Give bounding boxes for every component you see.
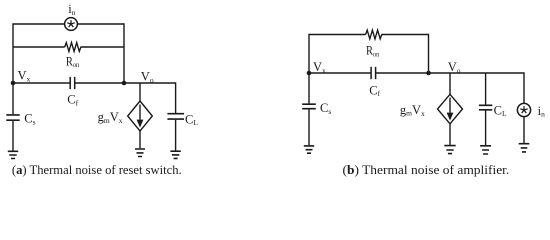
wire gmVx top (b) <box>449 73 451 94</box>
label Cs (a) <box>24 112 35 127</box>
caption (b) <box>343 162 510 177</box>
wire right vertical (b) <box>428 34 430 73</box>
capacitor Cs (b) <box>302 104 316 109</box>
wire CL top (b) <box>485 73 487 105</box>
label Ron (b) <box>366 44 380 59</box>
wire Cs bottom (b) <box>308 109 310 145</box>
label Vo (a) <box>141 70 154 85</box>
label CL (b) <box>494 103 507 118</box>
wire gmVx bottom (a) <box>139 131 141 148</box>
wire CL bottom (b) <box>485 111 487 146</box>
wire Cs top (a) <box>12 83 14 114</box>
svg-text:Vo: Vo <box>448 60 461 75</box>
capacitor Cf (a) <box>70 77 75 89</box>
wire in branch bottom (b) <box>523 117 525 143</box>
capacitor CL (b) <box>479 105 492 110</box>
wire top rail left (b) <box>309 34 366 36</box>
wire second rail right (a) <box>81 46 125 48</box>
svg-text:Cf: Cf <box>67 93 78 108</box>
svg-text:(a) Thermal noise of reset swi: (a) Thermal noise of reset switch. <box>12 162 182 177</box>
dependent source gmVx (b) <box>438 94 463 124</box>
svg-text:gmVx: gmVx <box>400 103 425 118</box>
label in (a) <box>68 2 75 17</box>
wire left vertical (a) <box>12 23 14 83</box>
wire in branch top (b) <box>523 72 525 103</box>
label Vx (b) <box>313 60 326 75</box>
capacitor Cf (b) <box>371 67 376 79</box>
label Cf (b) <box>369 84 380 99</box>
caption (a) <box>12 162 182 177</box>
wire Cs top (b) <box>308 73 310 104</box>
wire main rail right segment (a) <box>75 82 176 84</box>
wire top rail right (b) <box>381 34 428 36</box>
svg-text:Cs: Cs <box>24 112 35 127</box>
wire Cs bottom (a) <box>12 121 14 151</box>
label Cf (a) <box>67 93 78 108</box>
wire main rail left segment (b) <box>309 72 371 74</box>
resistor Ron (a) <box>65 43 81 52</box>
wire CL top (a) <box>175 82 177 113</box>
ground under in (b) <box>519 144 530 152</box>
wire left vertical (b) <box>308 34 310 73</box>
ground under Cs (b) <box>304 146 314 153</box>
label Vx (a) <box>18 68 31 83</box>
svg-text:Cf: Cf <box>369 84 380 99</box>
label Cs (b) <box>320 101 331 116</box>
svg-text:CL: CL <box>494 103 507 118</box>
wire right vertical (a) <box>123 23 125 83</box>
capacitor Cs (a) <box>6 115 19 120</box>
node Vo (b) <box>426 71 431 76</box>
wire gmVx bottom (b) <box>449 124 451 145</box>
label CL (a) <box>185 112 198 127</box>
svg-text:Vo: Vo <box>141 70 154 85</box>
ground under gmVx (a) <box>135 149 145 157</box>
svg-text:Ron: Ron <box>66 54 80 69</box>
current noise source in (a) <box>65 18 78 31</box>
svg-text:Vx: Vx <box>18 68 31 83</box>
label gmVx (a) <box>98 110 123 125</box>
wire gmVx top (a) <box>139 83 141 101</box>
label Vo (b) <box>448 60 461 75</box>
wire main rail left segment (a) <box>13 82 70 84</box>
svg-text:Ron: Ron <box>366 44 380 59</box>
label Ron (a) <box>66 54 80 69</box>
ground under gmVx (b) <box>444 146 455 154</box>
svg-text:CL: CL <box>185 112 198 127</box>
wire top rail (a) <box>13 23 124 25</box>
svg-text:Cs: Cs <box>320 101 331 116</box>
ground under Cs (a) <box>8 151 18 158</box>
node Vx (b) <box>307 71 312 76</box>
wire main rail right segment (b) <box>376 72 524 74</box>
ground under CL (a) <box>170 151 180 158</box>
dependent source gmVx (a) <box>128 101 153 131</box>
label in (b) <box>538 104 545 119</box>
node Vx (a) <box>11 81 16 86</box>
current noise source in (b) <box>517 103 530 116</box>
wire CL bottom (a) <box>175 120 177 151</box>
svg-text:Vx: Vx <box>313 60 326 75</box>
node Vo (a) <box>122 81 127 86</box>
svg-text:in: in <box>538 104 545 119</box>
label gmVx (b) <box>400 103 425 118</box>
ground under CL (b) <box>480 146 491 154</box>
svg-text:gmVx: gmVx <box>98 110 123 125</box>
wire second rail left (a) <box>13 46 65 48</box>
resistor Ron (b) <box>366 30 382 39</box>
capacitor CL (a) <box>167 114 184 119</box>
svg-text:in: in <box>68 2 75 17</box>
svg-text:(b) Thermal noise of amplifier: (b) Thermal noise of amplifier. <box>343 162 510 177</box>
